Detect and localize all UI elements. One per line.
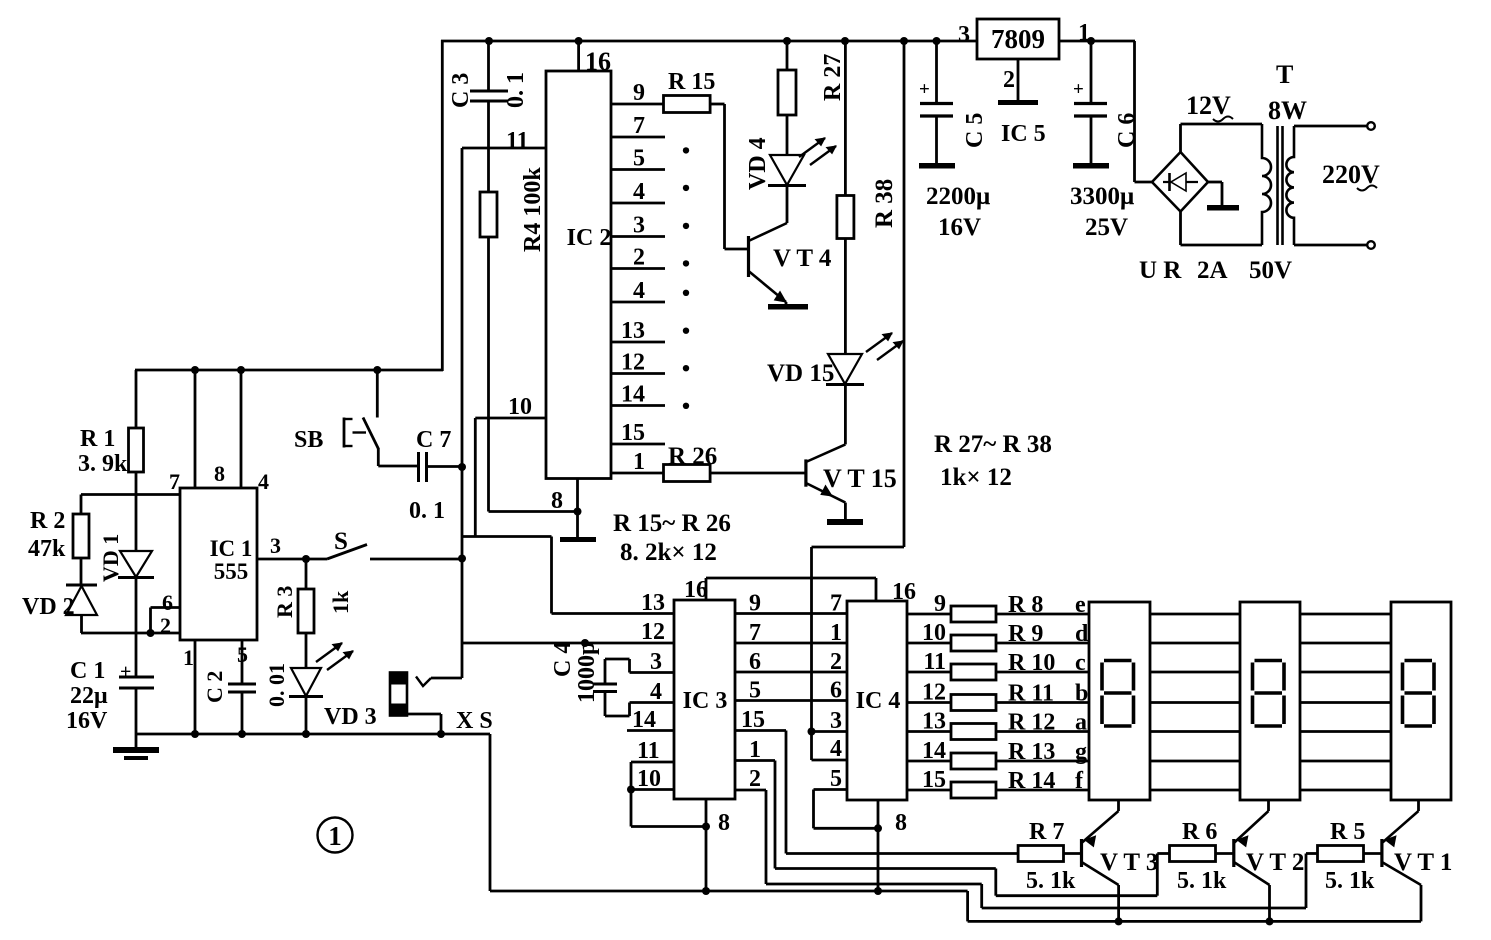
resistor R1 [129,370,144,550]
wire IC2 pin16 [577,41,580,71]
svg-text:11: 11 [637,738,660,764]
label pin5 [237,642,248,667]
svg-text:c: c [1075,650,1086,676]
label IC3 pin4 [650,679,662,705]
svg-text:1: 1 [830,620,842,646]
svg-text:R 26: R 26 [668,443,717,470]
svg-text:6: 6 [162,590,173,615]
wire pin7 line [81,493,180,496]
transistor VT3 [1082,811,1119,921]
svg-text:C 6: C 6 [1114,113,1140,148]
label R7 [1029,819,1064,845]
label IC4 pin2 [830,649,842,675]
wire display link a 1-2 [1150,730,1240,733]
diode VD1 [118,550,154,633]
svg-text:47k: 47k [28,536,66,562]
label SB [294,427,323,453]
wire display link e 2-3 [1300,613,1391,616]
label segment g [1075,739,1087,765]
svg-text:IC 2: IC 2 [567,225,612,251]
label IC4 pin5 [830,766,842,792]
svg-text:3. 9k: 3. 9k [78,451,128,477]
label R9 [1008,621,1043,647]
node junction VT2 col [1266,917,1274,925]
led VD3 arrows [316,643,353,670]
label R4 value [520,167,546,252]
svg-text:8: 8 [214,461,225,486]
label VT2 [1246,849,1304,876]
ground VT15 [827,519,863,525]
label IC3 pin14 [632,707,656,733]
svg-text:VD 15: VD 15 [767,360,834,387]
node junction R3 tap [302,555,310,563]
label VD2 [22,594,75,620]
svg-text:13: 13 [641,590,665,616]
label XS [456,708,493,734]
wire IC4 pin4 [812,732,848,761]
wire IC3-IC4 line pin5 [735,699,847,702]
label IC3 pin3 [650,649,662,675]
svg-text:VD 2: VD 2 [22,594,75,620]
wire segment line f [907,789,1089,792]
wire secondary bottom lead [1294,241,1375,249]
label IC3 pin12 [641,619,665,645]
svg-text:1k× 12: 1k× 12 [940,464,1012,491]
svg-text:13: 13 [621,318,645,344]
wire IC4 pin16 [875,578,878,601]
svg-text:0. 1: 0. 1 [409,498,445,524]
ground bridge [1207,205,1239,211]
svg-text:2A: 2A [1197,257,1228,284]
svg-text:R4 100k: R4 100k [520,167,546,252]
svg-text:8: 8 [551,488,563,514]
ground C5 [919,163,955,169]
diode UR internal [1163,173,1198,191]
svg-text:12V: 12V [1186,91,1231,120]
svg-text:16: 16 [585,47,611,76]
transformer T secondary winding [1286,126,1294,245]
wire IC4 pin8 [877,800,880,891]
svg-text:IC 4: IC 4 [856,688,901,714]
svg-text:C 5: C 5 [962,113,988,148]
label UR [1139,257,1182,284]
svg-text:V T 4: V T 4 [773,245,832,272]
wire pin8 drop [194,370,197,488]
led VD3 [289,668,323,734]
wire display link g 2-3 [1300,760,1391,763]
label R38 [871,179,898,228]
ground VT4 [768,304,808,310]
wire DS2 common pin [1267,800,1270,811]
svg-text:IC 5: IC 5 [1001,121,1046,147]
wire segment line e [907,613,1089,616]
led VD4 arrows [799,138,836,165]
label IC3 pin16 [684,577,708,603]
resistor R2 [73,495,89,587]
label pin7 [169,469,180,494]
wire pin5 drop [241,640,244,734]
wire display link e 1-2 [1150,613,1240,616]
svg-text:1: 1 [1078,20,1090,46]
svg-text:5. 1k: 5. 1k [1026,868,1076,894]
label VT4 [773,245,832,272]
svg-text:1: 1 [328,821,342,851]
label IC4 pin16 [892,579,916,605]
connector XS plug [390,673,407,716]
label R15-R26 range [613,510,731,537]
label C4 [550,642,576,677]
wire IC3 pin12 line [462,642,674,645]
label IC1 pin3 [270,533,281,558]
wire display link g 1-2 [1150,760,1240,763]
label IC4 pin9 [934,591,946,617]
label R10 [1008,650,1055,676]
svg-text:IC 1: IC 1 [210,536,253,561]
svg-text:e: e [1075,592,1086,618]
label IC2 pin8 [551,488,563,514]
resistor R27 [778,41,796,157]
wire IC3 pin8 [705,799,708,891]
svg-text:d: d [1075,621,1089,647]
svg-text:2: 2 [830,649,842,675]
svg-text:+: + [1073,79,1084,100]
node junction pin8 rail [191,366,199,374]
svg-text:5: 5 [749,678,761,704]
label C1 voltage [66,708,108,734]
svg-text:VD 1: VD 1 [98,534,123,582]
wire XS hook link [416,677,462,687]
svg-text:7: 7 [633,113,645,139]
node junction R27/bus [783,37,791,45]
wire pin3 line [257,558,327,561]
svg-text:8: 8 [895,810,907,836]
label C1 [70,658,105,684]
wire segment line d [907,642,1089,645]
svg-text:1k: 1k [328,590,353,614]
label IC4 pin13 [922,709,946,735]
label C5 voltage [938,214,981,241]
resistor R14 [951,782,996,798]
resistor R13 [951,753,996,769]
wire IC3-IC4 line pin6 [735,671,847,674]
svg-text:16: 16 [892,579,916,605]
label R27-R38 value [940,464,1012,491]
svg-text:14: 14 [621,382,645,408]
node junction IC2 pin8 [574,508,582,516]
label R6 [1182,819,1217,845]
label R3 [272,586,297,618]
capacitor C5 [919,41,953,163]
label IC4 pin15 [922,767,946,793]
transistor VT4 [749,223,788,305]
svg-text:1: 1 [633,449,645,475]
svg-text:16V: 16V [66,708,108,734]
label C6 voltage [1085,214,1128,241]
label C6 value [1070,183,1134,210]
wire SB bottom [378,448,417,466]
label VD3 [324,704,377,730]
svg-text:8W: 8W [1268,96,1307,125]
label R12 [1008,710,1055,736]
wire IC5 pin2 [1017,59,1020,101]
label R26 [668,443,717,470]
label VD1 [98,534,123,582]
label R2 value [28,536,66,562]
svg-text:0. 1: 0. 1 [503,72,529,108]
label IC3 pin1 [749,737,761,763]
label IC3 pin10 [637,766,661,792]
ground IC5 pin2 [998,100,1038,105]
wire pin11 riser [461,148,464,678]
label IC4 pin12 [922,680,946,706]
label T power [1268,96,1307,125]
label R5 [1330,819,1365,845]
led VD4 [768,155,806,223]
svg-text:12: 12 [922,680,946,706]
resistor R6 [1157,846,1234,862]
capacitor C2 [228,684,256,692]
node junction pin1 gnd [191,730,199,738]
wire pin1 drop [194,640,197,734]
svg-text:9: 9 [633,80,645,106]
wire ground rail [135,733,490,736]
wire display link d 1-2 [1150,642,1240,645]
svg-text:555: 555 [214,559,249,584]
svg-text:50V: 50V [1249,257,1292,284]
svg-text:VD 4: VD 4 [745,137,771,190]
wire R15 to VT4 base [725,104,749,249]
resistor R4 [480,192,497,512]
svg-text:7809: 7809 [991,24,1045,54]
node junction C6/bus [1087,37,1095,45]
wire IC3 pin11 [631,762,674,790]
label VT1 [1394,849,1452,876]
node junction VT3 col [1115,917,1123,925]
label pin6 [162,590,173,615]
wire display link a 2-3 [1300,730,1391,733]
label C1 value [70,683,108,709]
wire IC2 pin10 line [475,418,546,537]
label R14 [1008,768,1055,794]
rectifier UR bridge [1152,152,1208,212]
wire IC2 pin8 [576,479,579,540]
svg-text:R 9: R 9 [1008,621,1043,647]
svg-text:14: 14 [922,738,946,764]
node junction pin10/11 [627,786,635,794]
label IC2 [567,225,612,251]
wire IC2 right pin stubs [610,104,665,473]
wire IC3 pin13 line [552,612,675,615]
label T voltage [1249,257,1292,284]
svg-text:2: 2 [160,613,171,638]
label 12V [1186,91,1233,122]
svg-text:0. 01: 0. 01 [264,663,289,707]
svg-text:VD 3: VD 3 [324,704,377,730]
wire display link f 1-2 [1150,789,1240,792]
resistor R9 [951,635,996,651]
svg-text:R 27: R 27 [820,54,846,101]
label IC1 [210,536,253,561]
svg-text:R 10: R 10 [1008,650,1055,676]
decoder IC4 box [847,601,907,800]
label C7 value [409,498,445,524]
resistor R11 [951,695,996,711]
svg-text:14: 14 [632,707,656,733]
label IC2 right pin numbers [621,80,645,475]
svg-text:10: 10 [922,620,946,646]
node junction IC2 pin16/bus [575,37,583,45]
svg-text:R 6: R 6 [1182,819,1217,845]
svg-text:25V: 25V [1085,214,1128,241]
wire IC3 pin4 [605,703,674,717]
node junction pin2 tie [147,629,155,637]
svg-text:15: 15 [741,707,765,733]
resistor R15 [664,96,725,113]
wire clock link [461,537,552,614]
label IC5 pin3 [958,22,970,48]
svg-text:4: 4 [633,179,645,205]
label diagram number 1 [318,818,353,853]
wire VCC drop to IC4 en [812,41,905,732]
label IC5 [1001,121,1046,147]
label R2 [30,508,65,534]
resistor R12 [951,724,996,740]
svg-text:2: 2 [1003,67,1015,93]
svg-text:3: 3 [830,708,842,734]
label IC3 [683,688,728,714]
svg-text:R 14: R 14 [1008,768,1055,794]
wire IC4 pin3 [812,730,848,733]
svg-text:X S: X S [456,708,493,734]
label R8 [1008,592,1043,618]
svg-text:V T 1: V T 1 [1394,849,1452,876]
wire bus-left drop to IC1 rail [441,40,444,371]
ground main [113,734,159,760]
wire IC1 VCC rail [135,369,443,372]
label R15-R26 value [620,539,717,566]
svg-text:4: 4 [258,469,269,494]
node junction C7/pin11 line [458,463,466,471]
label C2 [202,671,227,703]
svg-text:R 3: R 3 [272,586,297,618]
svg-text:R 11: R 11 [1008,681,1054,707]
wire bridge right gnd [1208,182,1222,206]
wire IC3 pin3 [605,659,674,673]
counter IC3 box [674,600,735,799]
label segment b [1075,681,1088,707]
wire DS1 common pin [1117,800,1120,811]
svg-text:6: 6 [830,678,842,704]
svg-text:R 7: R 7 [1029,819,1064,845]
node junction R38/bus [841,37,849,45]
display DS1 digit [1102,661,1134,727]
svg-text:5: 5 [830,766,842,792]
label IC3 pin13 [641,590,665,616]
transistor VT2 [1234,811,1270,921]
wire segment line b [907,701,1089,704]
node junction IC3 pin8 gnd [702,887,710,895]
svg-text:f: f [1075,768,1084,794]
label IC3 pin9 [749,591,761,617]
svg-text:5. 1k: 5. 1k [1325,868,1375,894]
label R27-R38 range [934,431,1052,458]
svg-text:12: 12 [641,619,665,645]
label R1 value [78,451,128,477]
label C7 [416,427,451,453]
resistor R8 [951,606,996,622]
resistor R7 [1018,846,1081,862]
svg-text:R 12: R 12 [1008,710,1055,736]
svg-text:2: 2 [749,766,761,792]
svg-text:3: 3 [650,649,662,675]
label R6 value [1177,868,1227,894]
node junction S/C7 [458,555,466,563]
svg-text:U R: U R [1139,257,1182,284]
node junction VD3 gnd [302,730,310,738]
label VT15 [823,464,897,493]
op-amp IC2 box [546,71,611,479]
wire IC2 pin11 line [462,147,546,150]
label IC4 pin8 [895,810,907,836]
label IC3 pin6 [749,649,761,675]
led VD15 [826,354,864,444]
svg-text:2200μ: 2200μ [926,183,990,210]
label 555 [214,559,249,584]
wire segment line g [907,760,1089,763]
transformer T core [1278,126,1283,245]
label IC4 pin10 [922,620,946,646]
svg-text:R 5: R 5 [1330,819,1365,845]
svg-text:R 15~ R 26: R 15~ R 26 [613,510,731,537]
wire pin6/2 tie bracket [151,608,181,634]
wire display link b 2-3 [1300,701,1391,704]
svg-text:1: 1 [183,645,194,670]
wire bridge top out [1181,124,1263,152]
label R5 value [1325,868,1375,894]
wire display link c 1-2 [1150,671,1240,674]
display DS2 digit [1253,661,1285,727]
node junction IC3 pin8 tie [702,823,710,831]
svg-text:R 38: R 38 [871,179,898,228]
label R11 [1008,681,1054,707]
svg-text:R 27~ R 38: R 27~ R 38 [934,431,1052,458]
svg-text:1: 1 [749,737,761,763]
label segment e [1075,592,1086,618]
svg-text:b: b [1075,681,1088,707]
wire top VCC bus [441,40,1135,43]
label C4 value [574,642,600,703]
label IC3 pin2 [749,766,761,792]
svg-text:10: 10 [637,766,661,792]
node junction col-line/bus [900,37,908,45]
label IC3 pin7 [749,620,761,646]
label UR current [1197,257,1228,284]
svg-text:C 7: C 7 [416,427,451,453]
svg-text:+: + [919,79,930,100]
label R3 value [328,590,353,614]
transistor VT15 [806,444,846,519]
op-amp IC1 555 box [180,488,257,640]
svg-text:3: 3 [958,22,970,48]
label IC4 pin14 [922,738,946,764]
label IC3 pin5 [749,678,761,704]
svg-text:6: 6 [749,649,761,675]
label IC5 pin1 [1078,20,1090,46]
label segment f [1075,768,1084,794]
wire IC3 pin1 route [735,761,1157,896]
wire secondary top lead [1294,122,1375,130]
svg-text:SB: SB [294,427,323,453]
